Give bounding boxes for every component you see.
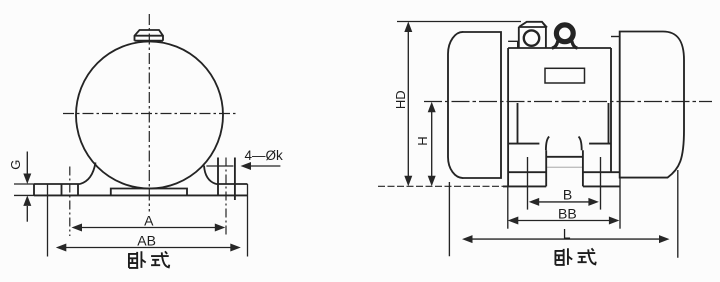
lifting cap on top (135, 30, 164, 41)
BB left extension (507, 186, 509, 228)
eyebolt ring (556, 25, 573, 42)
center line (424, 101, 712, 103)
terminal box top face (519, 22, 547, 28)
4-Øk leader line through hole (206, 165, 233, 167)
left bracket step (508, 143, 539, 145)
HD top extension (397, 21, 521, 23)
arch left hook (546, 137, 549, 151)
text 卧式 right (drawn as strokes) (555, 248, 596, 265)
horizontal center line (63, 113, 237, 115)
A dimension line (81, 227, 216, 229)
svg-text:4—Øk: 4—Øk (245, 148, 284, 163)
body top (508, 47, 611, 49)
left hole center line (69, 167, 71, 237)
body right side (610, 48, 612, 172)
B dimension line (538, 201, 590, 203)
right gusset (204, 166, 216, 185)
middle pad (111, 189, 187, 196)
G lower arrow (26, 206, 28, 222)
faint through line (546, 166, 583, 168)
right hole line (600, 157, 602, 210)
nameplate (545, 68, 585, 83)
plate bottom edges (503, 185, 620, 187)
H arrow (431, 111, 433, 177)
terminal box front (519, 27, 546, 48)
svg-text:AB: AB (137, 233, 156, 249)
left gusset (80, 163, 96, 185)
HD arrow (407, 31, 409, 177)
svg-text:L: L (563, 225, 571, 241)
motor body circle (76, 42, 223, 189)
svg-text:H: H (415, 136, 430, 145)
arch right hook (579, 137, 582, 151)
left bracket vertical (517, 103, 519, 144)
right bracket step (589, 143, 611, 145)
svg-text:G: G (8, 160, 23, 170)
BB dimension line (517, 220, 610, 222)
terminal box circle (524, 30, 539, 45)
L extension lines (449, 170, 677, 258)
center bar top (546, 156, 583, 158)
vertical center line (148, 14, 150, 212)
left foot top (34, 183, 80, 185)
base plate left end (33, 184, 35, 195)
BB right extension (619, 178, 621, 229)
AB dimension line (65, 247, 232, 249)
text 卧式 left (drawn as strokes) (128, 251, 169, 268)
left AB extension line (47, 184, 49, 257)
G upper arrow (26, 152, 28, 175)
right foot hole edges (218, 158, 235, 201)
HD bottom extension (378, 185, 503, 187)
foot front verticals (546, 150, 583, 186)
4-Øk arrow (250, 165, 280, 167)
G extension lines (14, 184, 34, 195)
svg-text:BB: BB (558, 206, 577, 222)
base plate right end with AB extension (247, 184, 249, 257)
right bracket vertical (608, 103, 610, 144)
svg-text:B: B (563, 187, 572, 203)
plate top edges (508, 171, 620, 173)
body left side (507, 48, 509, 186)
svg-text:A: A (144, 213, 154, 229)
right hole center line (225, 158, 227, 237)
left foot hole edges (62, 184, 79, 195)
right foot top (216, 183, 248, 185)
right flange strip (611, 36, 620, 38)
eyebolt base (552, 41, 578, 49)
svg-text:HD: HD (393, 90, 408, 109)
L dimension line (471, 238, 660, 240)
base plate bottom (34, 194, 248, 196)
left hole line (527, 157, 529, 210)
left top step (508, 41, 518, 48)
right end cover (620, 32, 684, 178)
left end cover (448, 32, 501, 178)
